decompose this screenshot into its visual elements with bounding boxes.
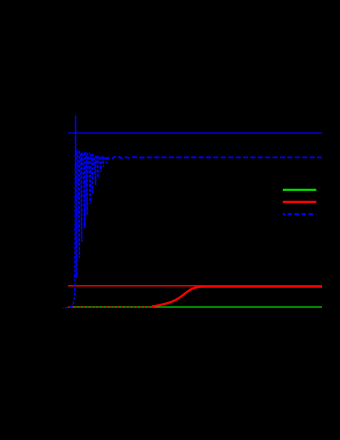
red sigmoid curve [152, 287, 322, 307]
blue dashed curve tail [112, 157, 322, 159]
thin red reference hline [68, 285, 322, 287]
legend blue dashed swatch [283, 213, 317, 215]
green curve [68, 306, 322, 308]
red overlap dashes on green [68, 306, 153, 308]
legend green swatch [283, 189, 317, 191]
blue dashed oscillating curve [63, 116, 109, 308]
blue reference hline [68, 132, 322, 134]
legend red swatch [283, 201, 317, 203]
